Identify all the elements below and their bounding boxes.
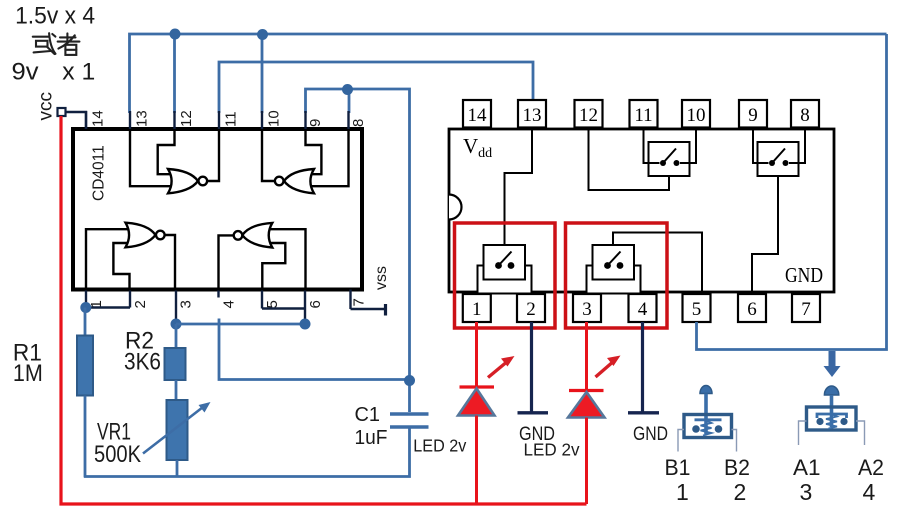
pushbutton A contact bar: [817, 414, 847, 418]
svg-text:GND: GND: [785, 263, 823, 287]
svg-text:B1: B1: [665, 455, 691, 480]
pin 13 stub: [129, 111, 131, 129]
node junction pin1: [80, 302, 91, 313]
svg-text:14: 14: [468, 105, 488, 126]
potentiometer VR1: [167, 400, 188, 460]
pin number labels bottom U1: [88, 298, 368, 308]
svg-text:1.5v x 4: 1.5v x 4: [15, 3, 95, 30]
pushbutton A contacts: [816, 418, 823, 425]
pin 14 stub: [85, 111, 87, 129]
pin 11 stub: [218, 111, 220, 129]
svg-text:A2: A2: [858, 455, 884, 480]
pushbutton A stem: [830, 395, 834, 427]
pin 8 stub: [347, 111, 349, 129]
svg-text:10: 10: [687, 105, 706, 126]
wire red vcc rail down and bottom: [61, 116, 587, 504]
node junction top rail pin10: [257, 29, 268, 40]
svg-text:1: 1: [676, 479, 689, 505]
svg-text:LED 2v: LED 2v: [524, 440, 580, 460]
svg-text:C1: C1: [355, 404, 381, 426]
svg-text:3: 3: [800, 479, 813, 505]
wire LED1 to red rail: [475, 416, 478, 505]
pin stubs top U1: [86, 111, 349, 129]
wire U2 pin4 to GND2: [641, 322, 644, 412]
LED2 emission arrow: [596, 361, 615, 378]
svg-text:14: 14: [90, 110, 107, 127]
svg-text:7: 7: [351, 298, 368, 306]
pin1 stub bottom: [85, 291, 87, 305]
svg-text:x 1: x 1: [62, 59, 95, 86]
pin 9 stub: [304, 111, 306, 129]
bold arrow to switch A: [824, 351, 841, 377]
chinese text 或者: [33, 33, 80, 55]
analog switch S2 (pins 9/8): [753, 129, 805, 176]
VR1 arrow: [143, 406, 205, 454]
pin2 stub bottom: [129, 291, 131, 308]
S4 control wire to pin5: [613, 233, 702, 295]
pushbutton A knob: [824, 386, 838, 395]
pin6 stub bottom: [304, 291, 306, 325]
wire pin8 stub: [348, 89, 351, 113]
pin 12 stub: [173, 111, 175, 129]
wire U2 pin2 to GND1: [530, 322, 533, 412]
svg-text:500K: 500K: [94, 441, 141, 468]
wire pin10 branch: [261, 34, 264, 113]
svg-text:11: 11: [223, 111, 240, 127]
wire tie pin1-pin2: [86, 306, 130, 308]
svg-text:1M: 1M: [13, 360, 43, 387]
svg-text:GND: GND: [633, 423, 668, 445]
ground GND1: [518, 411, 549, 414]
node junction pin6: [300, 319, 311, 330]
svg-text:3K6: 3K6: [124, 349, 161, 376]
svg-text:10: 10: [266, 110, 283, 127]
svg-text:5: 5: [264, 300, 281, 308]
LED1 emission arrow: [488, 361, 509, 378]
gate U1B nor mirrored: [262, 129, 349, 193]
U2 top pin boxes: [463, 100, 819, 128]
analog switch S4 (pins 3/4): [587, 245, 641, 294]
pin3 stub bottom: [175, 291, 177, 321]
svg-text:8: 8: [800, 105, 810, 126]
pin7 stub bottom: [349, 290, 351, 310]
wire LED2 to red rail: [585, 418, 588, 505]
svg-text:13: 13: [134, 110, 151, 127]
S2 control wire to pin6: [752, 176, 778, 294]
gate U1D nor mirrored: [219, 223, 306, 291]
svg-text:vss: vss: [373, 266, 390, 290]
wire branch to C1: [219, 319, 410, 380]
node junction pin8: [342, 84, 353, 95]
node junction top rail pin12: [170, 29, 181, 40]
analog switch S1 (pins 11/10): [644, 129, 697, 176]
U1A output wire to pin11: [206, 129, 219, 181]
U1D input wire from pin6: [270, 229, 306, 290]
svg-text:1: 1: [472, 299, 482, 320]
gate U1A nor: [130, 129, 219, 193]
pin 10 stub: [261, 111, 263, 129]
ground GND2: [628, 411, 659, 414]
IC U1 CD4011 body: [73, 129, 362, 290]
pushbutton A body: [807, 407, 857, 430]
svg-text:9v: 9v: [12, 59, 39, 86]
wire pin12 branch: [173, 34, 176, 113]
pushbutton B contacts: [692, 425, 700, 433]
U1A input wire from pin13: [130, 129, 171, 186]
svg-text:12: 12: [579, 105, 598, 126]
svg-text:4: 4: [221, 300, 238, 308]
analog switch S3 (pins 1/2): [478, 245, 532, 294]
svg-text:A1: A1: [793, 455, 821, 480]
pushbutton B contact bar: [695, 418, 722, 421]
U1A input wire from pin12: [158, 129, 175, 174]
pushbutton A spring: [826, 414, 837, 429]
pushbutton B body: [684, 415, 732, 438]
U1B input wire from pin9: [306, 129, 322, 174]
U1D output wire to pin4: [219, 235, 235, 290]
pin number labels top U1: [90, 110, 368, 127]
LED D2: [569, 389, 604, 392]
svg-text:7: 7: [801, 299, 811, 320]
svg-text:13: 13: [523, 105, 542, 126]
svg-text:2: 2: [526, 299, 536, 320]
vcc terminal: [58, 108, 66, 116]
svg-text:vcc: vcc: [36, 92, 57, 121]
gate U1C nor: [86, 223, 175, 291]
U1C output wire to pin3: [164, 235, 176, 291]
svg-text:8: 8: [350, 119, 367, 127]
wire U2 pin5 to top rail: [697, 34, 887, 350]
wire pin3 node to pin5/6 node: [176, 323, 305, 326]
pushbutton B stem: [704, 394, 708, 435]
U1B output wire to pin10: [262, 129, 276, 181]
svg-text:4: 4: [638, 299, 648, 320]
resistor R1: [77, 336, 93, 396]
wire R1 to bottom rail: [84, 396, 87, 478]
resistor R2: [165, 348, 186, 380]
svg-text:CD4011: CD4011: [91, 145, 108, 201]
svg-text:5: 5: [692, 299, 702, 320]
capacitor C1 plates: [390, 412, 429, 415]
svg-text:2: 2: [734, 479, 747, 505]
red highlight box B: [455, 223, 556, 328]
svg-text:11: 11: [634, 105, 652, 126]
wire bottom rail to C1: [84, 429, 410, 477]
svg-text:LED 2v: LED 2v: [413, 436, 466, 456]
svg-text:9: 9: [748, 105, 758, 126]
red highlight box A: [566, 223, 668, 328]
U1D input wire from pin5: [262, 243, 285, 291]
svg-text:12: 12: [178, 110, 195, 127]
wire tie pin5-pin6: [262, 307, 305, 309]
svg-text:4: 4: [863, 479, 876, 505]
wire pin9/pin8 to C1 node: [306, 89, 410, 412]
ground vss rail symbol: [351, 308, 385, 310]
wire vcc to pin14: [66, 112, 87, 129]
wire VR1 to bottom rail: [176, 460, 179, 478]
wire pin4 stub bottom: [217, 291, 219, 298]
svg-text:6: 6: [747, 299, 757, 320]
S1 control wire to pin12: [589, 129, 670, 190]
wire U2 pin3 to LED2: [585, 322, 588, 391]
svg-text:3: 3: [582, 299, 592, 320]
U1B input wire from pin8: [311, 129, 349, 186]
node junction C1 top: [404, 375, 415, 386]
node junction pin3: [171, 319, 182, 330]
U2 bottom pin boxes: [463, 294, 820, 322]
U1C input wire from pin2: [113, 243, 129, 291]
wire pin1 to R1: [84, 308, 87, 337]
pushbutton A leads: [799, 421, 807, 445]
U1C input wire from pin1: [86, 229, 128, 290]
pushbutton B spring: [701, 421, 712, 436]
svg-text:2: 2: [132, 300, 149, 308]
U2 notch: [449, 195, 461, 220]
pin5 stub bottom: [261, 291, 263, 309]
svg-text:9: 9: [307, 119, 324, 127]
wire pin3 node to R2: [175, 324, 178, 349]
pushbutton B leads: [678, 430, 684, 452]
pushbutton B knob: [700, 386, 712, 394]
wire top rail vcc/pin13/pin12/pin10 to right: [130, 34, 887, 113]
wire pin13 to switch S3 control: [505, 128, 533, 246]
svg-text:3: 3: [178, 300, 195, 308]
svg-text:6: 6: [307, 300, 324, 308]
wire U2 pin1 to LED1: [475, 322, 478, 387]
svg-text:B2: B2: [724, 455, 750, 480]
wire pin11 to right IC pin13: [219, 62, 533, 113]
IC U2 body: [449, 129, 834, 292]
wire R2 to VR1: [175, 380, 178, 401]
svg-text:1uF: 1uF: [355, 427, 388, 449]
LED D1: [460, 385, 495, 388]
